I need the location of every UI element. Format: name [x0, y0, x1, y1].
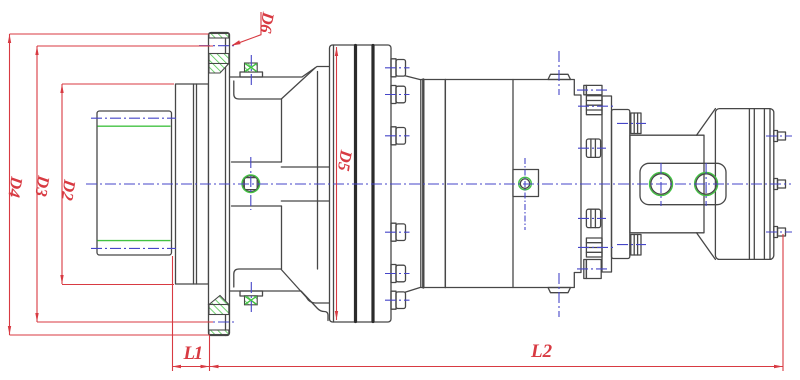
- port 2 axis: [705, 163, 707, 206]
- top boss bolt axis: [250, 55, 252, 86]
- mounting flange plate: [209, 33, 230, 336]
- spline socket square: [243, 176, 259, 192]
- motor flange bolt top: [631, 113, 641, 134]
- flange bottom hatch band: [209, 330, 229, 335]
- port circle inner black rings: [651, 174, 717, 194]
- L1 arrows: [172, 365, 181, 368]
- section B bottom bolt: [548, 288, 571, 293]
- blue dash-dot centerlines: [86, 46, 792, 322]
- brake housing section A: [405, 76, 513, 293]
- hub spline green line top: [98, 125, 171, 127]
- motor housing section B: [513, 80, 581, 288]
- motor mid block: [630, 135, 704, 233]
- svg-text:D5: D5: [334, 148, 356, 173]
- adapter plate 2: [612, 110, 630, 259]
- dimension L1/L2 line: [172, 366, 783, 368]
- end cap bolts (right face): [774, 131, 786, 238]
- bottom boss head cross: [245, 296, 257, 304]
- svg-text:D4: D4: [4, 174, 26, 198]
- svg-text:D3: D3: [31, 173, 53, 198]
- section B bottom bolt axis: [558, 273, 560, 317]
- svg-text:D6: D6: [256, 10, 278, 35]
- port 1 axis: [660, 163, 662, 206]
- spline vertical centerline: [250, 157, 252, 210]
- flange top middle hatch band: [209, 54, 229, 64]
- rear bolt column: [584, 85, 602, 278]
- flange bolt circle top: [199, 45, 237, 47]
- plug cross: [524, 158, 526, 230]
- end cap bolt axes: [766, 135, 792, 137]
- spline green circle: [242, 175, 260, 193]
- flange bottom middle hatch band: [209, 305, 229, 315]
- section B top bolt axis: [558, 51, 560, 95]
- drain plug box: [513, 170, 539, 197]
- motor flange bolt axes: [617, 122, 646, 124]
- D6 leader arrow: [232, 40, 241, 45]
- dimension L1 extension lines: [173, 256, 210, 371]
- ring gear section: [330, 45, 392, 322]
- section B top bolt: [548, 74, 571, 79]
- adapter plate 1: [602, 96, 612, 272]
- svg-text:L2: L2: [530, 341, 553, 362]
- port circle 2 green: [695, 173, 718, 196]
- dimension D5 line: [336, 47, 338, 320]
- main centerline: [86, 183, 791, 185]
- L2 arrows: [210, 365, 219, 368]
- svg-text:D2: D2: [57, 177, 79, 202]
- dimension D2 lines: [62, 84, 174, 285]
- flange bolt circle bottom: [199, 321, 237, 323]
- svg-text:L1: L1: [183, 343, 202, 364]
- dimension L2 extension line: [782, 234, 784, 371]
- hub spline centerline top: [91, 117, 176, 119]
- rear bolt axes: [577, 89, 608, 91]
- flange top chamfer hatch: [209, 64, 229, 74]
- D3 arrows: [35, 46, 38, 55]
- dimension D6 leader: [233, 12, 262, 45]
- output hub cylinder: [97, 111, 172, 255]
- flange top hatch band: [209, 34, 229, 39]
- spacer cylinder: [176, 84, 212, 284]
- top boss head cross: [245, 64, 257, 72]
- dimension D3 lines: [37, 46, 213, 322]
- top boss washer: [240, 72, 263, 77]
- D4 arrows: [8, 34, 11, 43]
- plug green circle: [519, 177, 532, 190]
- green detail lines: [98, 64, 718, 305]
- hub spline centerline bottom: [91, 247, 176, 249]
- motor end cap: [697, 109, 774, 260]
- ring bolt axes: [385, 67, 410, 69]
- top boss bolt head: [245, 63, 258, 72]
- bottom boss bolt axis: [250, 282, 252, 313]
- green hatch areas of flange: [209, 34, 257, 335]
- dimension D4 lines: [10, 34, 210, 335]
- port circle 1 green: [650, 173, 673, 196]
- ring gear bolts (right face): [391, 59, 406, 309]
- motor flange bolt bottom: [631, 235, 641, 256]
- hub spline green line bottom: [98, 240, 171, 242]
- dimension labels: [4, 10, 552, 364]
- tapered housing outline: [230, 67, 331, 321]
- D5 arrows: [335, 47, 338, 56]
- port boss plate: [640, 163, 726, 204]
- flange bottom chamfer hatch: [209, 296, 229, 305]
- D2 arrows: [60, 84, 63, 93]
- bottom boss washer: [240, 291, 263, 296]
- bottom boss bolt head: [245, 296, 258, 305]
